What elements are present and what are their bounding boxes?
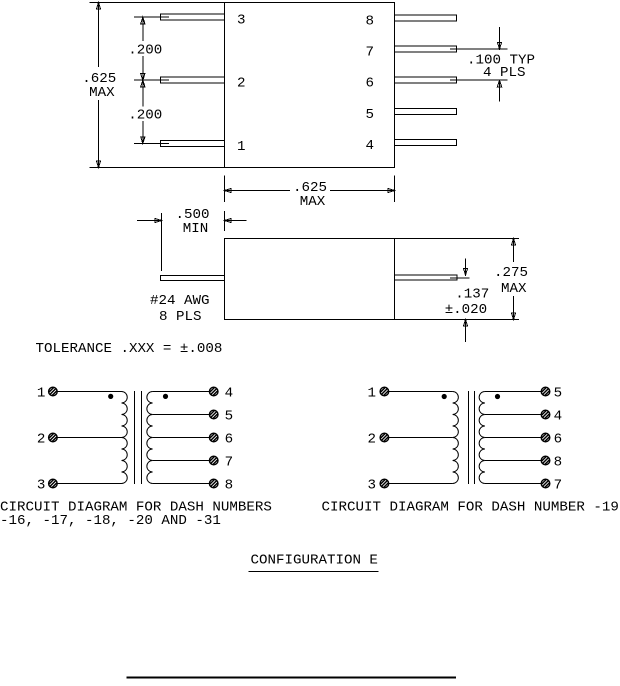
pin 8 lead (top view right) <box>395 15 457 21</box>
wire secondary to pin 7 (right diagram) <box>485 483 541 485</box>
configuration title underline <box>249 571 379 573</box>
terminal 1 (left diagram) <box>49 387 58 396</box>
svg-text:CONFIGURATION E: CONFIGURATION E <box>251 552 378 568</box>
terminal 8 (left diagram) <box>209 479 218 488</box>
pin 2 lead (top view left) <box>161 77 225 83</box>
svg-text:.137: .137 <box>455 286 489 302</box>
svg-text:6: 6 <box>366 76 375 92</box>
wire secondary to pin 5 (right diagram) <box>485 391 541 393</box>
svg-text:2: 2 <box>237 76 246 92</box>
lead left (side view) <box>161 275 225 280</box>
bottom rule <box>127 676 457 678</box>
svg-text:3: 3 <box>37 478 46 494</box>
pin 4 lead (top view right) <box>395 140 457 146</box>
svg-text:4: 4 <box>366 138 375 154</box>
svg-text:5: 5 <box>366 107 375 123</box>
transformer core (right diagram) <box>469 391 475 484</box>
terminal 7 (left diagram) <box>209 456 218 465</box>
wire secondary to pin 4 (right diagram) <box>485 414 541 416</box>
dimension .100 TYP vertical line <box>499 27 501 102</box>
svg-text:MAX: MAX <box>300 194 326 210</box>
pin 7 lead (top view right) <box>395 46 457 52</box>
svg-text:.275: .275 <box>494 265 528 281</box>
polarity dot primary (left diagram) <box>109 394 113 398</box>
svg-text:2: 2 <box>368 432 377 448</box>
svg-text:2: 2 <box>37 432 46 448</box>
pin 6 centerline extension <box>450 79 508 81</box>
svg-text:-16, -17, -18, -20 AND -31: -16, -17, -18, -20 AND -31 <box>0 513 221 529</box>
terminal 7 (right diagram) <box>541 479 550 488</box>
dimension .137 upper arrow line <box>465 259 467 276</box>
wire secondary to pin 5 (left diagram) <box>153 414 210 416</box>
lead right (side view) <box>395 275 458 280</box>
dimension .200 lower vertical line <box>142 80 144 143</box>
wire secondary to pin 7 (left diagram) <box>153 460 210 462</box>
polarity dot secondary (left diagram) <box>163 394 167 398</box>
pin 3 lead (top view left) <box>161 14 225 20</box>
terminal 8 (right diagram) <box>541 456 550 465</box>
dimension .625 MAX left vertical line <box>98 3 100 168</box>
svg-text:7: 7 <box>225 455 234 471</box>
dimension .625 MAX bottom: left extension line <box>224 176 226 203</box>
svg-text:7: 7 <box>366 45 375 61</box>
secondary winding (right diagram) <box>479 392 485 484</box>
svg-text:8 PLS: 8 PLS <box>159 309 201 325</box>
pin 2 centerline <box>134 79 169 81</box>
svg-text:CIRCUIT DIAGRAM FOR DASH NUMBE: CIRCUIT DIAGRAM FOR DASH NUMBER -19 <box>322 500 619 516</box>
svg-text:4: 4 <box>225 386 234 402</box>
polarity dot secondary (right diagram) <box>495 394 499 398</box>
svg-text:6: 6 <box>225 432 234 448</box>
svg-text:7: 7 <box>554 478 563 494</box>
dimension .275 MAX top extension line <box>395 238 520 240</box>
terminal 2 (right diagram) <box>380 433 389 442</box>
terminal 5 (right diagram) <box>541 387 550 396</box>
svg-text:.200: .200 <box>128 108 162 124</box>
wire secondary to pin 4 (left diagram) <box>153 391 210 393</box>
terminal 1 (right diagram) <box>380 387 389 396</box>
svg-text:3: 3 <box>237 13 246 29</box>
wire pin3 to primary (right diagram) <box>389 483 453 485</box>
svg-text:1: 1 <box>37 386 46 402</box>
pin 7 centerline extension <box>450 48 508 50</box>
wire secondary to pin 6 (left diagram) <box>153 437 210 439</box>
dimension .500 MIN left arrow line <box>137 220 162 222</box>
svg-text:6: 6 <box>554 432 563 448</box>
wire pin1 to primary (right diagram) <box>389 391 453 393</box>
wire top extension line <box>90 2 225 4</box>
terminal 6 (right diagram) <box>541 433 550 442</box>
terminal 3 (right diagram) <box>380 479 389 488</box>
transformer core (left diagram) <box>135 391 142 484</box>
svg-text:MAX: MAX <box>501 281 527 297</box>
terminal 4 (right diagram) <box>541 410 550 419</box>
dimension .500 MIN right extension line <box>224 211 226 231</box>
svg-text:TOLERANCE .XXX = ±.008: TOLERANCE .XXX = ±.008 <box>36 341 223 357</box>
svg-text:5: 5 <box>225 409 234 425</box>
svg-text:MIN: MIN <box>183 221 209 237</box>
svg-text:4: 4 <box>554 409 563 425</box>
dimension .137 lower arrow line <box>465 320 467 343</box>
svg-text:4 PLS: 4 PLS <box>483 65 525 81</box>
svg-text:.200: .200 <box>128 43 162 59</box>
polarity dot primary (right diagram) <box>442 394 446 398</box>
primary winding (left diagram) <box>122 392 128 484</box>
dimension .625 MAX bottom horizontal line <box>225 190 395 192</box>
terminal 2 (left diagram) <box>49 433 58 442</box>
dimension .625 MAX bottom: right extension line <box>394 176 396 203</box>
svg-text:1: 1 <box>237 139 246 155</box>
terminal 6 (left diagram) <box>209 433 218 442</box>
wire pin2 to primary (right diagram) <box>389 437 453 439</box>
terminal 5 (left diagram) <box>209 410 218 419</box>
wire pin1 to primary (left diagram) <box>57 391 121 393</box>
terminal 3 (left diagram) <box>49 479 58 488</box>
svg-text:8: 8 <box>225 478 234 494</box>
dimension .500 MIN right arrow line <box>225 220 247 222</box>
wire pin2 to primary (left diagram) <box>57 437 121 439</box>
package body side view <box>225 239 395 320</box>
wire secondary to pin 8 (right diagram) <box>485 460 541 462</box>
pin 6 lead (top view right) <box>395 77 457 83</box>
svg-text:8: 8 <box>554 455 563 471</box>
svg-text:±.020: ±.020 <box>445 302 487 318</box>
svg-text:MAX: MAX <box>89 85 115 101</box>
wire bottom extension line <box>90 167 225 169</box>
dimension .500 MIN left extension line <box>161 213 163 271</box>
svg-text:5: 5 <box>554 386 563 402</box>
lead right centerline <box>450 277 470 279</box>
terminal 4 (left diagram) <box>209 387 218 396</box>
svg-text:1: 1 <box>368 386 377 402</box>
secondary winding (left diagram) <box>147 392 153 484</box>
primary winding (right diagram) <box>453 392 459 484</box>
pin 3 centerline <box>134 16 169 18</box>
pin 1 centerline <box>134 142 169 144</box>
svg-text:#24 AWG: #24 AWG <box>150 293 209 309</box>
pin 1 lead (top view left) <box>161 140 225 146</box>
wire secondary to pin 8 (left diagram) <box>153 483 210 485</box>
svg-text:3: 3 <box>368 478 377 494</box>
dimension .200 upper vertical line <box>142 17 144 80</box>
dimension .275 MAX vertical line <box>513 239 515 320</box>
pin 5 lead (top view right) <box>395 108 457 114</box>
wire pin3 to primary (left diagram) <box>57 483 121 485</box>
dimension .275 MAX bottom extension line <box>395 319 520 321</box>
package body top view <box>225 3 395 168</box>
wire secondary to pin 6 (right diagram) <box>485 437 541 439</box>
svg-text:8: 8 <box>366 13 375 29</box>
